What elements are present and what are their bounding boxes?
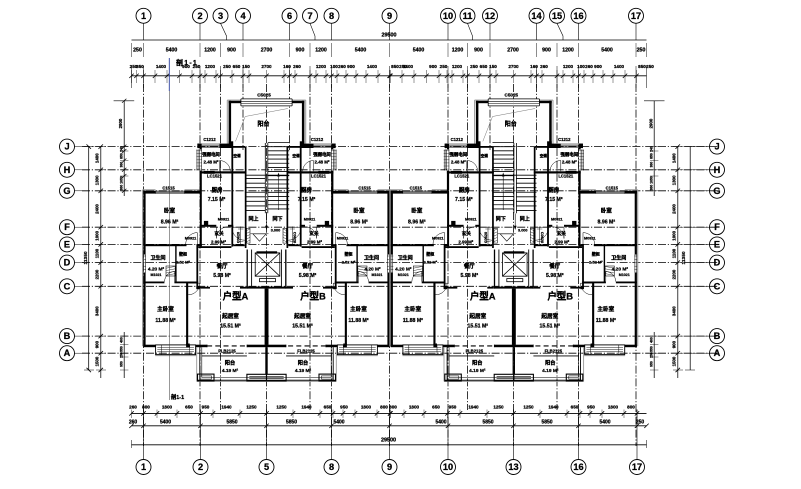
svg-text:1800: 1800 (409, 405, 420, 410)
svg-text:260: 260 (293, 64, 301, 69)
svg-text:850: 850 (119, 153, 123, 159)
svg-text:2.48 M²: 2.48 M² (451, 160, 466, 165)
top dimension tick line (129, 66, 646, 88)
svg-text:17: 17 (631, 11, 641, 21)
svg-text:强弱电间: 强弱电间 (313, 151, 331, 158)
svg-text:壁柜: 壁柜 (591, 251, 600, 257)
svg-text:3.000: 3.000 (271, 229, 281, 233)
svg-text:M0921: M0921 (551, 218, 563, 222)
top dimension row 1 values (132, 43, 647, 57)
right axis letter bubbles (690, 139, 724, 361)
svg-text:户型B: 户型B (300, 291, 326, 302)
svg-text:2.48 M²: 2.48 M² (562, 160, 577, 165)
left axis letter bubbles (60, 139, 89, 361)
svg-text:2200: 2200 (672, 269, 677, 279)
svg-text:7.15 M²: 7.15 M² (455, 197, 473, 203)
svg-text:1300: 1300 (672, 175, 677, 185)
svg-text:7: 7 (307, 11, 312, 21)
svg-text:1940: 1940 (301, 405, 312, 410)
svg-text:8: 8 (329, 11, 334, 21)
svg-text:250: 250 (133, 48, 142, 54)
svg-text:1: 1 (141, 462, 146, 472)
right main dimension chain (672, 144, 683, 378)
svg-text:5400: 5400 (160, 420, 171, 426)
svg-text:1300: 1300 (95, 175, 100, 185)
svg-text:J: J (714, 142, 719, 152)
svg-text:C: C (714, 281, 721, 291)
svg-text:7.15 M²: 7.15 M² (208, 197, 226, 203)
svg-text:1940: 1940 (548, 405, 559, 410)
svg-text:C1212: C1212 (558, 137, 571, 142)
svg-text:250: 250 (223, 64, 231, 69)
svg-text:1000: 1000 (672, 230, 677, 240)
bottom overall dimension line 29500 (132, 438, 647, 449)
svg-text:6: 6 (287, 11, 292, 21)
svg-text:850: 850 (638, 64, 646, 69)
right fine dimension chain 2900 (644, 101, 665, 378)
left unit stairs (245, 143, 289, 231)
svg-text:1250: 1250 (493, 405, 504, 410)
svg-text:260: 260 (540, 64, 548, 69)
svg-text:5: 5 (264, 462, 269, 472)
svg-text:8.96 M²: 8.96 M² (161, 220, 179, 226)
svg-text:玄关: 玄关 (309, 230, 319, 237)
svg-text:A: A (64, 348, 71, 358)
svg-text:5.98 M²: 5.98 M² (213, 273, 231, 279)
svg-text:1940: 1940 (468, 405, 479, 410)
svg-text:户型A: 户型A (470, 291, 496, 302)
svg-text:240: 240 (119, 146, 123, 152)
svg-text:5400: 5400 (413, 48, 425, 54)
svg-text:G: G (713, 186, 720, 196)
svg-text:15.51 M²: 15.51 M² (220, 324, 241, 330)
svg-text:M0921: M0921 (584, 237, 596, 241)
svg-text:1100: 1100 (672, 248, 677, 258)
svg-text:900: 900 (429, 64, 437, 69)
svg-text:1400: 1400 (95, 153, 100, 163)
svg-text:650: 650 (571, 405, 579, 410)
svg-text:240: 240 (650, 146, 654, 152)
svg-text:11.88 M²: 11.88 M² (403, 318, 423, 324)
svg-text:950: 950 (650, 361, 654, 367)
svg-text:5850: 5850 (286, 420, 297, 426)
svg-text:LC1521: LC1521 (558, 174, 574, 179)
svg-text:壁柜: 壁柜 (178, 251, 187, 257)
svg-text:FLB2125: FLB2125 (218, 348, 236, 353)
svg-text:8.96 M²: 8.96 M² (350, 220, 368, 226)
svg-text:空调: 空调 (540, 153, 548, 158)
svg-text:250: 250 (470, 64, 478, 69)
right unit stairs (mirrored) (493, 143, 537, 231)
svg-text:11: 11 (463, 11, 473, 21)
svg-text:2200: 2200 (95, 269, 100, 279)
svg-text:1: 1 (141, 11, 146, 21)
svg-text:阳台: 阳台 (545, 359, 555, 367)
svg-text:FLB2125: FLB2125 (545, 348, 563, 353)
svg-text:1200: 1200 (315, 48, 327, 54)
svg-text:1250: 1250 (246, 405, 257, 410)
svg-text:厨房: 厨房 (301, 186, 312, 194)
svg-text:850: 850 (391, 64, 399, 69)
svg-text:15.51 M²: 15.51 M² (540, 324, 561, 330)
svg-text:11.88 M²: 11.88 M² (596, 318, 616, 324)
svg-text:餐厅: 餐厅 (302, 262, 313, 270)
svg-text:空调: 空调 (292, 153, 300, 158)
svg-text:300: 300 (119, 185, 123, 191)
svg-text:3.000: 3.000 (518, 229, 528, 233)
room labels (148, 92, 383, 374)
svg-text:3: 3 (218, 11, 223, 21)
svg-text:C0620: C0620 (293, 232, 297, 243)
svg-text:300: 300 (650, 162, 654, 168)
svg-text:13: 13 (508, 462, 518, 472)
svg-text:C1515: C1515 (162, 185, 175, 190)
svg-text:1200: 1200 (205, 64, 216, 69)
svg-text:950: 950 (340, 405, 348, 410)
svg-text:M0921: M0921 (185, 237, 197, 241)
svg-text:7.15 M²: 7.15 M² (545, 197, 563, 203)
svg-text:150: 150 (242, 64, 250, 69)
bottom dimension row 2 values (129, 420, 649, 429)
svg-text:C0620: C0620 (237, 232, 241, 243)
svg-text:160: 160 (530, 64, 538, 69)
svg-text:2.52 M²: 2.52 M² (589, 260, 603, 265)
svg-text:550: 550 (119, 346, 123, 352)
svg-text:空调: 空调 (481, 153, 489, 158)
svg-text:起居室: 起居室 (293, 312, 311, 320)
svg-text:1200: 1200 (452, 64, 463, 69)
left main dimension chain (95, 144, 106, 378)
svg-text:4.20 M²: 4.20 M² (148, 267, 165, 273)
svg-text:1050: 1050 (119, 176, 123, 184)
svg-text:5.98 M²: 5.98 M² (299, 273, 317, 279)
svg-text:F: F (64, 222, 70, 232)
svg-text:5400: 5400 (435, 420, 446, 426)
svg-text:650: 650 (185, 405, 193, 410)
svg-text:5400: 5400 (333, 420, 344, 426)
svg-text:1250: 1250 (523, 405, 534, 410)
svg-text:900: 900 (672, 340, 677, 348)
svg-text:B: B (64, 331, 71, 341)
svg-text:5850: 5850 (482, 420, 493, 426)
svg-text:2: 2 (198, 462, 203, 472)
svg-text:C1515: C1515 (358, 185, 371, 190)
svg-text:900: 900 (227, 48, 236, 54)
svg-text:5850: 5850 (541, 420, 552, 426)
svg-text:8.96 M²: 8.96 M² (408, 220, 426, 226)
svg-text:1500: 1500 (95, 356, 100, 366)
svg-text:4.20 M²: 4.20 M² (364, 267, 381, 273)
svg-text:FLB2125: FLB2125 (466, 348, 484, 353)
svg-text:玄关: 玄关 (557, 230, 567, 237)
svg-text:LC1521: LC1521 (454, 174, 470, 179)
svg-text:4.19 M²: 4.19 M² (469, 368, 486, 374)
svg-text:16: 16 (573, 11, 583, 21)
svg-text:260: 260 (585, 64, 593, 69)
svg-text:2900: 2900 (648, 118, 653, 128)
svg-text:900: 900 (296, 48, 305, 54)
svg-text:800: 800 (142, 405, 150, 410)
svg-text:主卧室: 主卧室 (597, 305, 614, 313)
svg-text:800: 800 (389, 405, 397, 410)
svg-text:150: 150 (489, 64, 497, 69)
svg-text:14: 14 (531, 11, 542, 21)
bottom dimension tick line (129, 410, 646, 419)
svg-text:M0921: M0921 (465, 218, 477, 222)
svg-text:阳台: 阳台 (298, 359, 308, 367)
svg-text:900: 900 (542, 48, 551, 54)
svg-text:E: E (714, 239, 720, 249)
svg-text:M1021: M1021 (151, 273, 162, 277)
svg-text:4.19 M²: 4.19 M² (542, 368, 559, 374)
svg-text:950: 950 (119, 361, 123, 367)
svg-text:11.88 M²: 11.88 M² (348, 318, 368, 324)
left fine dimension chain 2900 (114, 99, 135, 378)
svg-text:J: J (64, 142, 69, 152)
svg-text:400: 400 (119, 337, 123, 343)
svg-text:2.48 M²: 2.48 M² (204, 160, 219, 165)
svg-text:2700: 2700 (507, 48, 519, 54)
svg-text:2400: 2400 (672, 204, 677, 214)
svg-text:1250: 1250 (276, 405, 287, 410)
svg-text:650: 650 (432, 405, 440, 410)
svg-text:1200: 1200 (562, 48, 574, 54)
svg-text:8.96 M²: 8.96 M² (598, 220, 616, 226)
svg-text:餐厅: 餐厅 (549, 262, 560, 270)
svg-text:剖1-1: 剖1-1 (171, 393, 184, 401)
svg-text:1400: 1400 (672, 153, 677, 163)
svg-text:250: 250 (650, 352, 654, 358)
svg-text:起居室: 起居室 (468, 312, 486, 320)
svg-text:同下: 同下 (496, 216, 506, 223)
svg-text:强弱电间: 强弱电间 (450, 151, 468, 158)
svg-text:主卧室: 主卧室 (157, 305, 174, 313)
svg-text:4.20 M²: 4.20 M² (395, 267, 412, 273)
svg-text:160: 160 (283, 64, 291, 69)
svg-text:950: 950 (449, 405, 457, 410)
svg-text:5.98 M²: 5.98 M² (546, 273, 564, 279)
svg-text:主卧室: 主卧室 (350, 305, 367, 313)
svg-text:1400: 1400 (614, 64, 625, 69)
svg-text:2400: 2400 (95, 204, 100, 214)
svg-text:300: 300 (650, 185, 654, 191)
svg-text:1200: 1200 (452, 48, 464, 54)
svg-text:1100: 1100 (95, 248, 100, 258)
svg-text:空调: 空调 (233, 153, 241, 158)
svg-text:C1212: C1212 (203, 137, 216, 142)
section cut line 1-1 (168, 58, 170, 400)
svg-text:LC1521: LC1521 (207, 174, 223, 179)
svg-text:400: 400 (650, 337, 654, 343)
svg-text:2700: 2700 (508, 64, 519, 69)
svg-text:250: 250 (637, 48, 646, 54)
svg-text:C1212: C1212 (311, 137, 324, 142)
svg-text:650: 650 (233, 64, 241, 69)
svg-text:1800: 1800 (361, 405, 372, 410)
svg-text:M0921: M0921 (304, 218, 316, 222)
svg-text:250: 250 (440, 64, 448, 69)
svg-text:E: E (64, 239, 70, 249)
left building unit (143, 99, 391, 382)
top dimension row 2 values (130, 64, 655, 69)
svg-text:2.99 M²: 2.99 M² (211, 240, 226, 245)
svg-text:5400: 5400 (166, 48, 178, 54)
svg-text:4.19 M²: 4.19 M² (295, 368, 312, 374)
svg-text:2.99 M²: 2.99 M² (458, 240, 473, 245)
svg-text:阳台: 阳台 (505, 120, 517, 128)
svg-text:D: D (64, 258, 71, 268)
svg-text:900: 900 (95, 340, 100, 348)
svg-text:1400: 1400 (403, 64, 414, 69)
svg-text:29500: 29500 (382, 33, 397, 39)
svg-text:5400: 5400 (599, 420, 610, 426)
svg-text:剖1-1: 剖1-1 (176, 58, 198, 67)
svg-text:1000: 1000 (95, 230, 100, 240)
svg-text:900: 900 (347, 64, 355, 69)
svg-text:800: 800 (380, 405, 388, 410)
svg-text:10: 10 (443, 11, 453, 21)
svg-text:650: 650 (480, 64, 488, 69)
svg-text:阳台: 阳台 (257, 120, 269, 128)
svg-text:强弱电间: 强弱电间 (202, 151, 220, 158)
svg-text:950: 950 (587, 405, 595, 410)
svg-text:2.52 M²: 2.52 M² (176, 260, 190, 265)
horizontal grid centerlines (82, 147, 719, 354)
svg-text:A: A (714, 348, 721, 358)
svg-text:2.99 M²: 2.99 M² (307, 240, 322, 245)
right building unit (390, 99, 638, 382)
svg-text:17: 17 (632, 462, 642, 472)
svg-text:C: C (64, 281, 71, 291)
svg-text:8: 8 (329, 462, 334, 472)
svg-text:起居室: 起居室 (540, 312, 558, 320)
svg-text:2900: 2900 (118, 118, 123, 128)
svg-text:900: 900 (474, 48, 483, 54)
svg-text:12: 12 (485, 11, 495, 21)
svg-text:1940: 1940 (221, 405, 232, 410)
svg-text:850: 850 (136, 64, 144, 69)
svg-text:550: 550 (650, 346, 654, 352)
svg-text:壁柜: 壁柜 (425, 251, 434, 257)
svg-text:户型A: 户型A (223, 291, 249, 302)
svg-text:阳台: 阳台 (472, 359, 482, 367)
svg-text:卧室: 卧室 (164, 207, 176, 215)
svg-text:15.51 M²: 15.51 M² (292, 324, 313, 330)
svg-text:B: B (714, 331, 721, 341)
vertical grid centerlines (144, 84, 637, 446)
svg-text:15: 15 (552, 11, 562, 21)
svg-text:4.19 M²: 4.19 M² (222, 368, 239, 374)
svg-text:强弱电间: 强弱电间 (561, 151, 579, 158)
svg-text:M1021: M1021 (619, 273, 630, 277)
svg-text:4.20 M²: 4.20 M² (612, 267, 629, 273)
svg-text:C1515: C1515 (410, 185, 423, 190)
svg-text:5400: 5400 (601, 48, 613, 54)
svg-text:1200: 1200 (316, 64, 327, 69)
svg-text:300: 300 (119, 162, 123, 168)
svg-text:F: F (714, 222, 720, 232)
svg-text:2.48 M²: 2.48 M² (315, 160, 330, 165)
bottom grid leader lines (144, 410, 638, 460)
svg-text:玄关: 玄关 (214, 230, 224, 237)
bottom axis bubbles (136, 460, 645, 475)
svg-text:15.51 M²: 15.51 M² (468, 324, 489, 330)
svg-text:H: H (714, 165, 721, 175)
svg-text:1400: 1400 (367, 64, 378, 69)
svg-text:1200: 1200 (204, 48, 216, 54)
svg-text:2.99 M²: 2.99 M² (554, 240, 569, 245)
svg-text:3400: 3400 (672, 306, 677, 316)
svg-text:950: 950 (202, 405, 210, 410)
svg-text:厨房: 厨房 (459, 186, 470, 194)
svg-text:卧室: 卧室 (601, 207, 613, 215)
svg-text:M1021: M1021 (398, 273, 409, 277)
svg-text:9: 9 (387, 462, 392, 472)
svg-text:同上: 同上 (248, 216, 258, 223)
svg-text:同上: 同上 (520, 216, 530, 223)
svg-text:9: 9 (387, 11, 392, 21)
top axis bubbles (136, 8, 644, 40)
svg-text:650: 650 (324, 405, 332, 410)
room labels (395, 92, 630, 374)
svg-text:C5025: C5025 (505, 92, 519, 97)
svg-text:户型B: 户型B (548, 291, 574, 302)
svg-text:5400: 5400 (355, 48, 367, 54)
svg-text:主卧室: 主卧室 (404, 305, 421, 313)
svg-text:800: 800 (627, 405, 635, 410)
svg-text:1050: 1050 (650, 176, 654, 184)
svg-text:阳台: 阳台 (225, 359, 235, 367)
svg-text:C1212: C1212 (451, 137, 464, 142)
svg-text:卫生间: 卫生间 (150, 255, 165, 262)
svg-text:M1021: M1021 (372, 273, 383, 277)
svg-text:卧室: 卧室 (411, 207, 423, 215)
svg-text:250: 250 (646, 64, 654, 69)
svg-text:M0921: M0921 (337, 237, 349, 241)
svg-text:5850: 5850 (226, 420, 237, 426)
svg-text:1400: 1400 (156, 64, 167, 69)
svg-text:壁柜: 壁柜 (344, 251, 353, 257)
svg-text:900: 900 (594, 64, 602, 69)
svg-text:G: G (63, 186, 70, 196)
svg-text:H: H (64, 165, 71, 175)
svg-text:卧室: 卧室 (353, 207, 365, 215)
svg-text:1800: 1800 (608, 405, 619, 410)
svg-text:卫生间: 卫生间 (398, 255, 413, 262)
svg-text:11.88 M²: 11.88 M² (155, 318, 175, 324)
svg-text:260: 260 (338, 64, 346, 69)
svg-text:250: 250 (119, 352, 123, 358)
svg-text:3400: 3400 (95, 306, 100, 316)
svg-text:同下: 同下 (272, 216, 282, 223)
svg-text:5.98 M²: 5.98 M² (461, 273, 479, 279)
bottom dimension row 1 values (129, 405, 635, 410)
svg-text:1200: 1200 (563, 64, 574, 69)
svg-text:2700: 2700 (261, 64, 272, 69)
svg-text:卫生间: 卫生间 (611, 255, 626, 262)
svg-text:M0921: M0921 (432, 237, 444, 241)
svg-text:850: 850 (650, 153, 654, 159)
svg-text:C0620: C0620 (484, 232, 488, 243)
svg-text:厨房: 厨房 (548, 186, 559, 194)
svg-text:2700: 2700 (261, 48, 273, 54)
svg-text:2.52 M²: 2.52 M² (342, 260, 356, 265)
svg-text:1800: 1800 (162, 405, 173, 410)
svg-text:10: 10 (443, 462, 453, 472)
svg-text:2: 2 (197, 11, 202, 21)
svg-text:29500: 29500 (381, 438, 396, 444)
svg-text:4: 4 (240, 11, 246, 21)
